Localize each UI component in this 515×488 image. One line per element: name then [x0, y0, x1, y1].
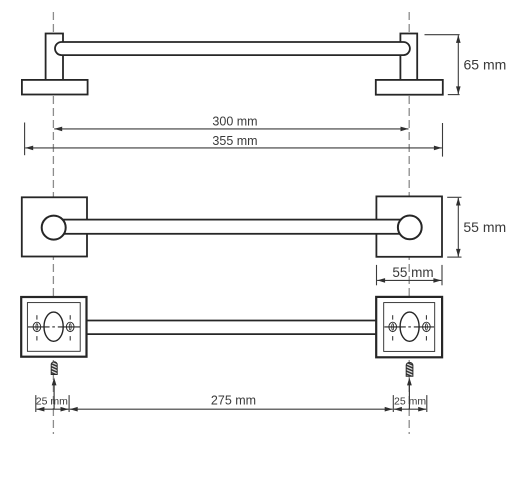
dim 25mm right extension lines [392, 395, 394, 412]
bottom view: right hole B crosshair ticks [425, 315, 427, 319]
front view: right square mount [376, 196, 442, 256]
dim 55mm vertical arrow down [456, 249, 461, 257]
dim 65mm line [457, 35, 459, 94]
dim 55mm horizontal extension right [441, 265, 443, 285]
bottom view: right crosshair horizontal line [384, 326, 406, 328]
dim 355mm extension right [442, 123, 444, 157]
bottom view: left screw hole A [33, 322, 41, 331]
bottom view: left crosshair horizontal line [28, 326, 50, 328]
bottom view: towel bar bottom edge [87, 333, 377, 335]
front view: towel bar [54, 220, 410, 234]
dim 275mm arrow right [385, 407, 393, 412]
bottom view: left screw hole B [66, 322, 74, 331]
top view: left base plate [22, 80, 88, 95]
centerline left [52, 10, 54, 434]
dim 55mm horizontal line [377, 279, 441, 281]
dim 55mm horizontal arrow right [433, 278, 441, 283]
bottom view: left hole A crosshair ticks [36, 315, 38, 319]
bottom view: left center oval [44, 312, 63, 341]
dim 300mm line [54, 128, 408, 130]
top view: right base plate [376, 80, 443, 95]
front view: left square mount [22, 197, 87, 256]
right up arrow [408, 384, 410, 409]
front view: right boss circle [398, 216, 422, 240]
svg-text:275 mm: 275 mm [211, 394, 256, 408]
dim 55mm vertical extension top [447, 196, 461, 198]
front view: left boss circle [42, 216, 66, 240]
top view: right wall post [400, 34, 417, 82]
svg-text:65 mm: 65 mm [464, 57, 507, 73]
bottom view: right inner plate [384, 303, 435, 352]
bottom view: right outer plate [376, 297, 442, 357]
dim 25mm right line [394, 408, 426, 410]
dim 300mm arrow left [54, 127, 62, 132]
bottom view: left inner plate [27, 303, 80, 352]
svg-text:55 mm: 55 mm [463, 219, 506, 235]
dim 55mm horizontal extension left [376, 265, 378, 285]
right wall plug (screw) [406, 362, 413, 376]
dim 355mm arrow left [25, 146, 33, 151]
dim 25mm right arrow right [418, 407, 426, 412]
dim 55mm vertical arrow up [456, 198, 461, 206]
dim 275mm line [70, 408, 393, 410]
dim 65mm extension bottom [448, 94, 460, 96]
centerline right [408, 10, 410, 434]
dim 25mm left line [36, 408, 68, 410]
dim 300mm arrow right [401, 127, 409, 132]
top view: towel bar (side) [55, 42, 410, 55]
dim 55mm vertical line [457, 198, 459, 257]
dim 65mm arrow up [456, 35, 461, 43]
svg-text:300 mm: 300 mm [212, 115, 257, 129]
dim 25mm right arrow left [394, 407, 402, 412]
svg-text:25 mm: 25 mm [394, 396, 426, 408]
svg-text:355 mm: 355 mm [212, 134, 257, 148]
svg-text:55 mm: 55 mm [392, 265, 433, 280]
left wall plug (screw) [51, 362, 57, 375]
dim 25mm left arrow right [61, 407, 69, 412]
dim 355mm arrow right [434, 146, 442, 151]
bottom view: right center mark [408, 326, 411, 328]
bottom view: left hole B crosshair ticks [69, 315, 71, 319]
dim 25mm left arrow left [36, 407, 44, 412]
dim 275mm arrow left [70, 407, 78, 412]
dim 65mm extension top [425, 34, 460, 36]
dim 25mm left extension lines [35, 395, 37, 412]
dim 355mm extension left [24, 123, 26, 156]
bottom view: right hole A crosshair ticks [392, 315, 394, 319]
bottom view: towel bar top edge [87, 320, 377, 322]
svg-text:25 mm: 25 mm [36, 396, 68, 408]
dim 355mm line [25, 147, 442, 149]
bottom view: right screw hole B [423, 322, 431, 331]
bottom view: right screw hole A [389, 322, 397, 331]
bottom view: left outer plate [21, 297, 86, 357]
top view: left wall post [46, 34, 63, 82]
dim 65mm arrow down [456, 86, 461, 94]
left up arrow [53, 384, 55, 409]
bottom view: right center oval [400, 312, 419, 341]
dim 55mm horizontal arrow left [377, 278, 385, 283]
bottom view: left center mark [52, 326, 55, 328]
dim 55mm vertical extension bottom [447, 256, 461, 258]
